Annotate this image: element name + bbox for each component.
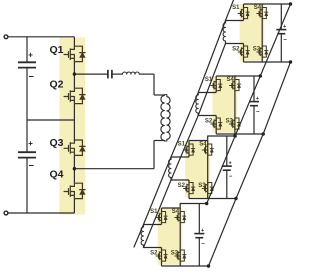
svg-text:S3: S3: [171, 251, 179, 257]
svg-text:S3: S3: [198, 183, 206, 189]
svg-text:−: −: [201, 242, 205, 248]
svg-text:S4: S4: [227, 77, 235, 83]
svg-text:S3: S3: [253, 47, 261, 53]
svg-text:S1: S1: [232, 5, 240, 11]
svg-text:S2: S2: [150, 251, 158, 257]
svg-text:+: +: [283, 24, 286, 30]
svg-text:Q4: Q4: [49, 169, 63, 181]
svg-text:Q3: Q3: [49, 137, 63, 149]
svg-text:S4: S4: [172, 209, 180, 215]
svg-text:Q2: Q2: [49, 79, 63, 91]
svg-text:S3: S3: [226, 119, 234, 125]
svg-text:+: +: [28, 139, 33, 148]
svg-text:S4: S4: [199, 142, 207, 148]
svg-text:S2: S2: [178, 183, 186, 189]
svg-text:+: +: [201, 228, 204, 234]
svg-text:S2: S2: [205, 119, 213, 125]
svg-text:−: −: [229, 174, 233, 180]
svg-text:S4: S4: [254, 5, 262, 11]
svg-text:+: +: [229, 161, 232, 167]
svg-text:Q1: Q1: [49, 44, 63, 56]
svg-text:−: −: [29, 72, 34, 82]
svg-text:−: −: [29, 161, 34, 171]
svg-text:+: +: [256, 96, 259, 102]
svg-text:+: +: [28, 51, 33, 60]
svg-text:−: −: [256, 110, 260, 116]
svg-text:S2: S2: [232, 47, 240, 53]
svg-text:−: −: [283, 38, 287, 44]
